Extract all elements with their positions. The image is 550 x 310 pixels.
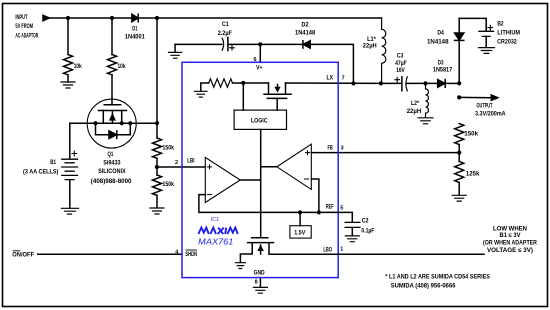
node LX pin — [351, 81, 355, 85]
inductor L1 — [382, 18, 386, 83]
resistor 10k (gate) — [108, 55, 117, 75]
node REF 1.5V tap — [298, 210, 302, 214]
svg-text:8: 8 — [255, 280, 258, 286]
svg-text:(408)988-8000: (408)988-8000 — [91, 178, 132, 185]
svg-text:SHDN: SHDN — [185, 251, 197, 258]
battery B2 lithium — [479, 31, 494, 36]
svg-text:OUTPUT: OUTPUT — [477, 103, 493, 110]
internal NMOS drain lead — [269, 243, 338, 255]
ground (left 10k) — [61, 82, 75, 88]
resistor 150k (feedback top) — [455, 124, 464, 145]
wire output — [459, 96, 491, 98]
wire FB output — [261, 166, 277, 168]
transistor Q1 gate bar — [104, 104, 121, 106]
wire drop to resistor 10k left — [67, 18, 69, 55]
wire ON/OFF to SHDN — [38, 253, 182, 255]
ground (internal NMOS) — [235, 263, 245, 269]
wire LBO out — [338, 253, 484, 255]
svg-text:D2: D2 — [302, 21, 309, 28]
node L2 top — [423, 81, 427, 85]
svg-text:FB: FB — [328, 144, 334, 151]
svg-text:22µH: 22µH — [407, 108, 422, 115]
svg-text:1N4148: 1N4148 — [295, 30, 316, 37]
svg-text:CR2032: CR2032 — [497, 38, 517, 45]
svg-text:IC1: IC1 — [211, 217, 219, 223]
wire B2 top rail — [459, 18, 486, 30]
capacitor C1 — [222, 38, 224, 50]
ground (C2) — [345, 236, 359, 242]
transistor Q1 channel bar — [98, 110, 126, 112]
svg-text:INPUT: INPUT — [15, 14, 27, 21]
resistor 10k (left) — [64, 55, 73, 75]
svg-text:6: 6 — [254, 57, 257, 63]
svg-text:Q1: Q1 — [108, 151, 114, 158]
node L1 bottom — [379, 81, 383, 85]
svg-text:16V: 16V — [396, 67, 405, 74]
ground (GND pin) — [253, 287, 267, 293]
svg-text:5: 5 — [340, 205, 343, 211]
svg-text:150k: 150k — [464, 131, 478, 138]
internal mosfet (LX switch) — [268, 83, 270, 94]
svg-text:150k: 150k — [163, 144, 175, 151]
wire LBI to IC — [157, 166, 205, 168]
internal resistor (V+ bias) — [209, 79, 233, 87]
diode D4 — [458, 18, 460, 33]
ground (internal resistor) — [195, 91, 207, 97]
svg-text:B2: B2 — [497, 21, 504, 28]
wire C1 to D2 — [228, 43, 303, 45]
wire GND pin stub — [259, 278, 261, 288]
wire 10k to Q1 gate — [111, 75, 113, 105]
op-amp U1 MAX761 package outline — [182, 62, 338, 277]
svg-text:1N5817: 1N5817 — [433, 66, 453, 73]
ground (LBI divider) — [150, 208, 164, 214]
node V+ — [258, 42, 262, 46]
svg-text:SUMIDA (408) 956-0666: SUMIDA (408) 956-0666 — [391, 283, 456, 290]
wire LOGIC to comparators — [260, 129, 262, 237]
internal NMOS source lead to ground — [240, 243, 252, 263]
svg-text:1: 1 — [340, 247, 343, 253]
svg-text:0.1µF: 0.1µF — [361, 228, 374, 235]
svg-text:LITHIUM: LITHIUM — [497, 29, 520, 36]
svg-text:2: 2 — [175, 160, 178, 166]
node battery rail — [155, 16, 159, 20]
svg-text:D4: D4 — [437, 30, 444, 37]
ground (B2) — [479, 48, 495, 54]
wire internal V+ rail — [233, 82, 269, 84]
svg-text:SILICONIX: SILICONIX — [98, 168, 126, 175]
wire B1 to Q1 — [69, 123, 71, 158]
wire REF to C2 — [338, 212, 352, 222]
wire LBI feedback to REF — [199, 195, 338, 213]
input terminal arrow — [43, 15, 49, 20]
svg-text:C3: C3 — [397, 53, 404, 60]
svg-text:* L1 AND L2 ARE SUMIDA CD54 SE: * L1 AND L2 ARE SUMIDA CD54 SERIES — [385, 274, 490, 281]
transistor Q1 source lead — [102, 111, 104, 124]
ground (feedback divider) — [452, 195, 466, 201]
transistor Q1 circle — [87, 99, 136, 148]
svg-text:V+: V+ — [256, 65, 263, 72]
svg-text:10k: 10k — [118, 63, 126, 70]
wire C3 to D3 — [407, 82, 438, 84]
wire drop to resistor 10k gate — [111, 18, 113, 55]
output terminal arrow — [491, 95, 498, 100]
wire to LBI node — [156, 158, 158, 175]
capacitor C1 ground — [174, 44, 176, 52]
node Q1 output to divider — [155, 121, 159, 125]
wire 1.5V reference stub — [299, 212, 301, 225]
ground (L2) — [418, 118, 433, 124]
node LBI — [155, 165, 159, 169]
ground (B1) — [62, 208, 79, 214]
internal NMOS bulk arrow — [260, 245, 262, 254]
battery B1 (3 AA cells) — [62, 159, 78, 179]
svg-text:VOLTAGE ≤ 3V): VOLTAGE ≤ 3V) — [487, 247, 533, 254]
svg-text:5V FROM: 5V FROM — [15, 23, 33, 30]
node Q1 drain — [120, 121, 124, 125]
svg-text:1N4001: 1N4001 — [125, 33, 146, 40]
transistor Q1 drain lead — [121, 111, 123, 124]
svg-text:ON/OFF: ON/OFF — [12, 251, 34, 258]
wire FB inverting input to REF — [311, 179, 319, 212]
svg-text:REF: REF — [326, 204, 334, 211]
svg-text:1.5V: 1.5V — [294, 229, 306, 236]
svg-text:C2: C2 — [362, 218, 369, 225]
svg-text:Si9433: Si9433 — [103, 160, 121, 167]
svg-text:22µH: 22µH — [363, 43, 377, 50]
wire FB to IC — [311, 152, 459, 154]
Q1 body diode — [96, 123, 110, 135]
node D3 cathode — [457, 81, 461, 85]
inductor L2 — [426, 83, 429, 117]
diode D2 — [302, 41, 304, 48]
svg-text:4: 4 — [175, 249, 178, 255]
node adapter divider B — [110, 16, 114, 20]
diode D3 — [438, 80, 445, 88]
svg-text:10k: 10k — [74, 63, 82, 70]
comparator LBI (op-amp) — [205, 157, 240, 202]
svg-text:L2*: L2* — [411, 100, 419, 107]
LOGIC block — [234, 110, 286, 129]
svg-text:150k: 150k — [163, 181, 175, 188]
wire top rail from input to D1 — [49, 17, 132, 19]
wire LBI output — [240, 179, 261, 181]
wire V+ pin 6 stub — [259, 44, 261, 62]
wire ground to C1 — [175, 43, 222, 45]
svg-text:1N4148: 1N4148 — [427, 38, 449, 45]
svg-text:MAX761: MAX761 — [198, 236, 233, 246]
node REF FB junction — [317, 210, 321, 214]
svg-text:3: 3 — [341, 145, 344, 151]
internal NMOS channel — [248, 242, 274, 244]
svg-text:C1: C1 — [222, 21, 229, 28]
node output branch — [457, 95, 461, 99]
svg-text:7: 7 — [342, 75, 345, 81]
diode D1 — [132, 14, 138, 22]
svg-text:LX: LX — [327, 74, 334, 81]
wire LX rail — [286, 82, 402, 84]
svg-text:LBO: LBO — [323, 247, 332, 254]
resistor 125k (feedback bottom) — [455, 162, 464, 183]
svg-text:2.2µF: 2.2µF — [218, 30, 232, 37]
resistor 150k (upper, LBI divider) — [153, 138, 162, 158]
wire top rail from D1 to L1 corner — [138, 17, 381, 19]
node internal V+ rail — [241, 81, 245, 85]
capacitor C2 — [345, 222, 360, 227]
svg-text:LBI: LBI — [187, 158, 194, 165]
error amp FB (op-amp) — [277, 144, 311, 189]
wire D2 to LX drop — [310, 44, 353, 83]
node Q1 body-diode return — [128, 121, 132, 125]
svg-text:(OR WHEN ADAPTER: (OR WHEN ADAPTER — [483, 239, 537, 246]
wire battery rail vertical x157 — [156, 18, 158, 138]
svg-text:GND: GND — [254, 269, 265, 276]
wire rail to LOGIC — [242, 83, 244, 110]
wire D3 to output node — [445, 82, 459, 84]
node FB — [457, 151, 461, 155]
svg-text:LOGIC: LOGIC — [251, 117, 268, 124]
svg-text:D1: D1 — [132, 25, 138, 32]
capacitor C3 — [401, 77, 403, 91]
resistor 150k (lower, LBI divider) — [153, 175, 162, 195]
svg-text:125k: 125k — [466, 171, 480, 178]
svg-text:B1: B1 — [50, 159, 56, 166]
reference 1.5V block — [290, 226, 311, 238]
svg-text:AC ADAPTOR: AC ADAPTOR — [15, 32, 38, 39]
node adapter divider A — [66, 16, 70, 20]
svg-text:B1 ≤ 3V: B1 ≤ 3V — [500, 232, 522, 239]
node Q1 source — [93, 121, 97, 125]
logo MAXIM — [198, 228, 237, 234]
transistor Q1 bulk arrow — [111, 111, 113, 124]
internal NMOS (LBO driver) gate bar — [252, 237, 268, 239]
wire resistor to ground — [67, 75, 69, 82]
svg-text:3.3V/200mA: 3.3V/200mA — [475, 110, 506, 117]
wire Q1 main rail — [70, 122, 157, 124]
svg-text:(3 AA CELLS): (3 AA CELLS) — [23, 168, 58, 175]
